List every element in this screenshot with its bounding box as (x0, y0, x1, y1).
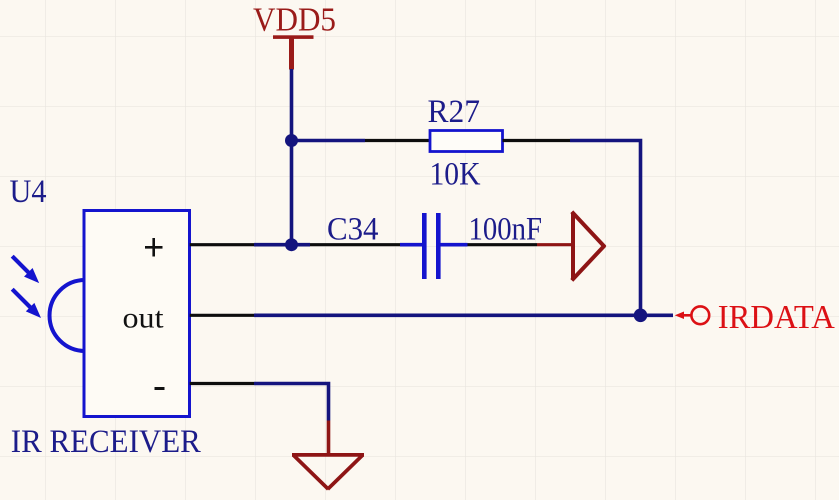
capacitor C34 left pin (310, 243, 400, 246)
svg-text:C34: C34 (327, 212, 379, 248)
svg-text:IR RECEIVER: IR RECEIVER (11, 424, 201, 460)
ground stub (dark red) (327, 421, 331, 455)
junction at VDD wire / resistor branch (285, 134, 298, 147)
IRDATA port arrow lead (676, 312, 691, 318)
ground symbol (292, 453, 364, 457)
junction at + pin / VDD wire (285, 238, 298, 251)
wire VDD5 to + pin (vertical) (290, 69, 294, 245)
pin - (black) (190, 382, 254, 385)
svg-text:10K: 10K (430, 157, 481, 193)
wire out pin to IRDATA (254, 313, 673, 317)
pin out (black) (190, 314, 254, 317)
off-sheet port triangle (572, 212, 605, 281)
IRDATA port circle (691, 306, 709, 324)
junction at out wire / resistor branch (634, 309, 648, 323)
svg-text:R27: R27 (428, 94, 481, 130)
IR light arrow 2 (12, 289, 40, 317)
resistor R27 left pin (365, 139, 430, 142)
capacitor C34 right pin (468, 243, 538, 246)
pin name + (145, 238, 163, 257)
capacitor C34 body (400, 213, 468, 279)
svg-text:100nF: 100nF (469, 212, 543, 248)
lens semicircle of IR receiver (50, 280, 85, 351)
svg-text:out: out (123, 301, 165, 334)
resistor R27 right pin (503, 139, 571, 142)
wire cap to port (dark red) (537, 243, 572, 246)
wire + pin to cap (blue) (254, 243, 310, 247)
wire junction to resistor left (blue part) (292, 139, 366, 142)
svg-text:IRDATA: IRDATA (718, 299, 835, 336)
wire - pin to ground (blue corner) (254, 384, 329, 421)
IR light arrow 1 (12, 256, 38, 282)
power symbol VDD5 (253, 2, 336, 70)
pin name - (155, 387, 165, 390)
wire resistor to IRDATA node (corner) (570, 141, 641, 316)
svg-text:U4: U4 (10, 174, 47, 210)
IR receiver U4 body (84, 211, 190, 417)
resistor R27 body (430, 131, 503, 152)
svg-text:VDD5: VDD5 (253, 2, 336, 39)
pin + (black) (190, 243, 254, 246)
